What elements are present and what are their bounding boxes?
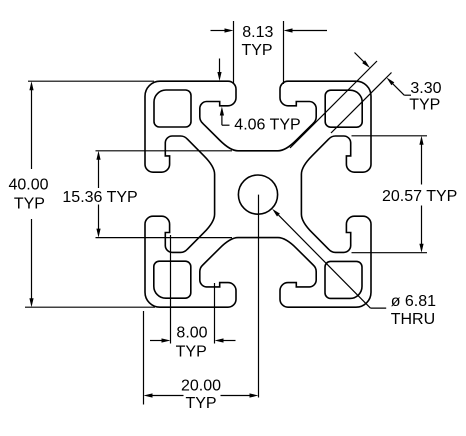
dimension 40.00 TYP arrows [31,89,33,169]
svg-text:TYP: TYP [176,344,207,361]
dimension 15.36 TYP arrows [98,159,100,189]
dimension 20.00 TYP arrows [152,395,184,397]
4.06 TYP upper arrow pointing down at top face [219,59,221,74]
svg-text:ø 6.81: ø 6.81 [391,293,436,310]
svg-text:TYP: TYP [185,395,216,412]
svg-text:8.13: 8.13 [242,24,273,41]
dimension 8.13 TYP extension lines [233,21,235,84]
dimension 40.00 TYP extension lines [28,80,154,82]
svg-text:20.00: 20.00 [181,378,221,395]
dimension 20.00 TYP extension line [143,311,145,405]
center hole circle [238,175,277,214]
svg-text:THRU: THRU [391,311,435,328]
svg-text:15.36 TYP: 15.36 TYP [62,189,137,206]
dimension 3.30 TYP extension lines (diagonal) [290,61,377,148]
dimension 15.36 TYP extension lines [96,150,233,152]
dimension 20.57 TYP extension lines [352,135,428,137]
extrusion outer contour with T-slots [145,81,371,307]
svg-text:3.30: 3.30 [410,80,441,97]
centerline from hole center down [258,195,260,398]
dimension 8.00 TYP arrows [150,340,163,342]
dimension 20.57 TYP arrows [421,144,423,185]
dimension 3.30 TYP arrows [355,53,365,63]
svg-text:20.57 TYP: 20.57 TYP [382,188,457,205]
4.06 TYP lower arrow and label [220,107,224,116]
corner hole top-left [154,90,191,127]
svg-text:TYP: TYP [14,196,45,213]
svg-text:TYP: TYP [241,42,272,59]
svg-text:TYP: TYP [409,96,440,113]
dimension 8.13 TYP arrows [211,30,226,32]
svg-text:4.06 TYP: 4.06 TYP [234,117,300,134]
corner hole bottom-right [325,261,362,298]
dimension 8.00 TYP extension lines [170,235,172,344]
corner hole bottom-left [154,261,191,298]
corner hole top-right [325,90,362,127]
leader arrow for center hole [272,209,280,217]
svg-text:8.00: 8.00 [176,324,207,341]
svg-text:40.00: 40.00 [8,176,48,193]
